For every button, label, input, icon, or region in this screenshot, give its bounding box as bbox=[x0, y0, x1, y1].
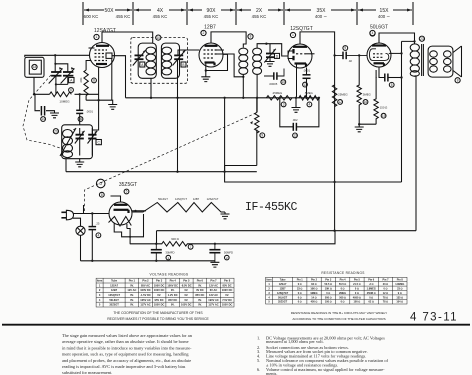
svg-text:105V AC: 105V AC bbox=[140, 298, 151, 302]
capacitor C9 .02 coupling bbox=[335, 52, 367, 60]
resistor R16 .5MEG grid bbox=[357, 55, 361, 124]
svg-text:Pin 5: Pin 5 bbox=[183, 279, 190, 283]
node caps bottom junction bbox=[55, 83, 57, 85]
output transformer T3 core bbox=[422, 44, 424, 76]
svg-text:ments.: ments. bbox=[266, 371, 277, 375]
node bus at 30MFD bbox=[155, 260, 157, 262]
resistor R7 900 ohm filter bbox=[130, 231, 335, 246]
volume control wiper arrow bbox=[250, 121, 253, 124]
svg-text:0 Ω: 0 Ω bbox=[298, 296, 302, 299]
node at grid line bbox=[79, 93, 81, 95]
circled ref 2 at V2 bbox=[201, 30, 206, 35]
boxed label C osc trimmer bbox=[96, 140, 101, 145]
wire trimmer to ground bbox=[269, 57, 271, 61]
svg-text:VOLTAGE READINGS: VOLTAGE READINGS bbox=[150, 273, 189, 277]
circled ref 1 at V1 bbox=[94, 34, 99, 39]
svg-text:6.: 6. bbox=[257, 367, 260, 372]
svg-text:455 KC: 455 KC bbox=[204, 14, 219, 19]
variable capacitor C osc trimmer bbox=[88, 128, 98, 156]
capacitor C5 cathode bypass bbox=[385, 74, 388, 82]
node tone left junction bbox=[279, 97, 281, 99]
svg-text:RESISTANCE READINGS IN THE B+: RESISTANCE READINGS IN THE B+ CIRCUITS M… bbox=[291, 311, 387, 315]
alignment scale frequency labels bbox=[84, 14, 390, 19]
wire V1 grid box to bus drop bbox=[112, 56, 126, 98]
svg-text:50X: 50X bbox=[105, 8, 115, 14]
svg-text:Volume control at maximum, no: Volume control at maximum, no signal app… bbox=[266, 367, 385, 373]
svg-text:100V DC: 100V DC bbox=[140, 288, 151, 292]
circled ref 6 bbox=[69, 88, 74, 93]
svg-text:in mind that it is possible to: in mind that it is possible to introduce… bbox=[62, 345, 192, 350]
svg-text:4 73-11: 4 73-11 bbox=[410, 312, 458, 324]
svg-text:0V.: 0V. bbox=[198, 303, 202, 307]
svg-text:The stage gain measured values: The stage gain measured values listed ab… bbox=[62, 333, 193, 338]
alignment scale arrowheads bbox=[84, 9, 412, 12]
svg-text:105V DC: 105V DC bbox=[181, 303, 192, 307]
circled ref 16b bbox=[363, 100, 368, 105]
stage gain paragraph bbox=[62, 333, 193, 375]
svg-text:ACCORDING TO THE CONDITION OF: ACCORDING TO THE CONDITION OF THE FILTER… bbox=[292, 317, 385, 321]
wire R8 bottom bbox=[86, 96, 99, 101]
svg-text:0 Ω: 0 Ω bbox=[383, 288, 387, 291]
ground at V2 cathode bbox=[201, 77, 210, 82]
circled ref 14 bbox=[41, 117, 46, 122]
filament labels bbox=[158, 197, 219, 201]
feedback vertical line bbox=[401, 41, 403, 182]
T1 secondary form bbox=[161, 43, 179, 78]
circled ref 10 on T1 box bbox=[156, 35, 161, 40]
svg-text:400 ∼: 400 ∼ bbox=[378, 14, 390, 19]
svg-text:0V.: 0V. bbox=[130, 298, 134, 302]
cooperation note bbox=[107, 311, 209, 321]
svg-text:Item: Item bbox=[97, 279, 103, 283]
svg-text:8: 8 bbox=[457, 79, 459, 83]
svg-text:12V AC: 12V AC bbox=[209, 283, 218, 287]
circled ref 13 bbox=[293, 133, 298, 138]
V1 grid pin box bbox=[106, 53, 112, 58]
svg-text:117V AC: 117V AC bbox=[208, 303, 218, 307]
svg-text:78 Ω: 78 Ω bbox=[383, 301, 388, 304]
capacitor C13 .002 bbox=[293, 123, 296, 131]
svg-text:85V DC: 85V DC bbox=[195, 293, 204, 297]
node V2 cathode bbox=[205, 69, 207, 71]
wire R8 top to V1 grid bbox=[86, 61, 91, 71]
svg-text:5: 5 bbox=[268, 301, 270, 304]
svg-text:12V AC: 12V AC bbox=[127, 288, 136, 292]
svg-text:190V AC: 190V AC bbox=[208, 298, 219, 302]
node R4 right junction bbox=[318, 97, 320, 99]
svg-text:12SA7: 12SA7 bbox=[279, 283, 287, 286]
svg-text:0 Ω: 0 Ω bbox=[369, 296, 373, 299]
boxed label B on T1 bbox=[181, 62, 186, 67]
svg-text:Tube: Tube bbox=[111, 279, 118, 283]
svg-text:250M Ω: 250M Ω bbox=[367, 292, 376, 295]
svg-text:RECEIVER MAKES IT POSSIBLE TO: RECEIVER MAKES IT POSSIBLE TO BRING YOU … bbox=[107, 317, 209, 321]
svg-text:Pin 3: Pin 3 bbox=[325, 279, 332, 282]
antenna loop L1 outer box bbox=[25, 57, 44, 77]
node heater pin bbox=[134, 210, 136, 212]
svg-text:50.5 Ω: 50.5 Ω bbox=[339, 283, 347, 286]
numbered notes list bbox=[257, 336, 389, 375]
svg-text:5: 5 bbox=[126, 190, 128, 194]
svg-text:4: 4 bbox=[372, 31, 374, 35]
circled ref 17 bbox=[303, 82, 308, 87]
wire T1 secondary bottom down to AVC line bbox=[177, 59, 179, 172]
T1 primary form bbox=[138, 43, 156, 78]
svg-text:23: 23 bbox=[420, 37, 424, 41]
node IF2 primary return bbox=[242, 76, 244, 78]
svg-text:400 ∼: 400 ∼ bbox=[315, 14, 327, 19]
svg-text:12B7: 12B7 bbox=[193, 197, 200, 201]
svg-text:8: 8 bbox=[101, 193, 103, 197]
circled ref 6 at V4 bbox=[370, 31, 375, 36]
svg-text:14 Ω: 14 Ω bbox=[311, 296, 316, 299]
circled ref 5b bbox=[389, 82, 394, 87]
svg-text:100V DC: 100V DC bbox=[222, 288, 233, 292]
separator rule bbox=[2, 324, 470, 326]
node T2 secondary at bus bbox=[256, 97, 258, 99]
circled ref 18 inside antenna bbox=[32, 64, 37, 69]
svg-text:50L6GT: 50L6GT bbox=[370, 25, 388, 31]
svg-text:5: 5 bbox=[99, 303, 101, 307]
wire V5 plate feed bbox=[111, 196, 121, 202]
svg-text:50L6GT: 50L6GT bbox=[158, 197, 168, 201]
svg-text:15: 15 bbox=[282, 80, 286, 84]
svg-text:0V.: 0V. bbox=[130, 293, 134, 297]
svg-text:100V DC: 100V DC bbox=[154, 288, 165, 292]
svg-text:Pin 5: Pin 5 bbox=[354, 279, 361, 282]
pilot lamp bbox=[76, 226, 85, 235]
wire V2 cathode loop bbox=[206, 54, 228, 70]
svg-text:100 Ω: 100 Ω bbox=[325, 301, 332, 304]
svg-text:.25MEG: .25MEG bbox=[272, 91, 282, 95]
svg-text:0V.: 0V. bbox=[198, 283, 202, 287]
node cathode ground junction bbox=[97, 99, 99, 101]
svg-text:10K Ω: 10K Ω bbox=[325, 288, 332, 291]
resistance readings table grid bbox=[266, 277, 407, 304]
wire link C-B top bbox=[55, 64, 67, 72]
svg-text:2: 2 bbox=[99, 288, 101, 292]
svg-text:.25MEG: .25MEG bbox=[337, 93, 347, 97]
wire cathode resistor join bbox=[359, 123, 376, 125]
capacitor C17 .0001 at V3 bbox=[303, 75, 311, 79]
node T1 primary bus bbox=[150, 97, 152, 99]
svg-text:12B7: 12B7 bbox=[111, 288, 118, 292]
speaker voice coil left bbox=[430, 51, 438, 72]
ground at T2 trimmer bbox=[266, 62, 275, 67]
svg-text:5: 5 bbox=[391, 83, 393, 87]
svg-text:0 Ω: 0 Ω bbox=[341, 301, 345, 304]
ground at V4 cathode bbox=[355, 124, 364, 132]
svg-text:-8.5V DC: -8.5V DC bbox=[181, 283, 192, 287]
svg-text:50MFD: 50MFD bbox=[224, 251, 233, 255]
svg-text:12SQ7GT: 12SQ7GT bbox=[277, 292, 289, 295]
ground at oscillator bbox=[75, 162, 84, 167]
main bus line bbox=[126, 97, 319, 99]
wire lamp to bottom bus bbox=[80, 235, 82, 260]
svg-text:6V AC: 6V AC bbox=[210, 288, 218, 292]
resistor R6 10MEG AVC bbox=[50, 92, 72, 97]
node 50MFD top bbox=[214, 243, 216, 245]
svg-text:0 Ω: 0 Ω bbox=[355, 288, 359, 291]
svg-text:9MEG: 9MEG bbox=[310, 292, 317, 295]
output transformer T3 primary winding bbox=[410, 44, 419, 76]
resistor R19 150 ohm cathode bbox=[374, 70, 378, 124]
wire volume bottom to AVC box bbox=[225, 130, 257, 172]
svg-text:.0001: .0001 bbox=[86, 110, 93, 114]
ground at filament end bbox=[221, 212, 230, 219]
svg-text:500 Ω: 500 Ω bbox=[339, 296, 346, 299]
wire osc box to ground bbox=[79, 159, 81, 162]
svg-text:0V.: 0V. bbox=[184, 293, 188, 297]
svg-text:average operative stage, rathe: average operative stage, rather than an … bbox=[62, 339, 189, 345]
voltage readings table text bbox=[97, 279, 233, 307]
T2 secondary trimmer cap bbox=[264, 44, 276, 63]
svg-text:84 Ω: 84 Ω bbox=[311, 283, 316, 286]
circled ref 4b on plate wire bbox=[370, 30, 375, 35]
svg-text:0V.: 0V. bbox=[130, 303, 134, 307]
svg-text:100V DC: 100V DC bbox=[167, 283, 178, 287]
svg-text:0 Ω: 0 Ω bbox=[341, 288, 345, 291]
svg-text:100 Ω: 100 Ω bbox=[354, 301, 361, 304]
wire V3 plate up and over bbox=[127, 32, 335, 244]
variable capacitor C osc padder bbox=[75, 128, 85, 156]
svg-text:0 Ω: 0 Ω bbox=[298, 301, 302, 304]
wire V1 plate to T1 primary bbox=[102, 32, 153, 43]
svg-text:13: 13 bbox=[293, 134, 297, 138]
svg-text:2: 2 bbox=[203, 31, 205, 35]
AVC return line bbox=[66, 159, 257, 172]
wire T2 primary bottom to bus bbox=[242, 74, 244, 97]
svg-text:35Z5GT: 35Z5GT bbox=[119, 182, 137, 188]
circled ref 19 bbox=[381, 113, 386, 118]
voltage readings table grid bbox=[96, 278, 234, 307]
oscillator coil arrow bbox=[60, 128, 76, 156]
svg-text:900 Ω: 900 Ω bbox=[171, 237, 179, 241]
svg-text:20K: 20K bbox=[79, 77, 83, 82]
bottom negative bus bbox=[81, 260, 215, 262]
svg-text:THE COOPERATION OF THE MANUFAC: THE COOPERATION OF THE MANUFACTURER OF T… bbox=[113, 311, 203, 315]
capacitor C2 50MFD bbox=[209, 244, 220, 262]
svg-text:12B7: 12B7 bbox=[280, 288, 287, 291]
dashed gang tuning link bbox=[23, 75, 63, 149]
ground at detector bbox=[292, 108, 301, 113]
wire T2 secondary top rail bbox=[257, 44, 288, 56]
wire caps bottoms to grid line bbox=[56, 76, 68, 95]
svg-text:Pin 7: Pin 7 bbox=[383, 279, 390, 282]
svg-text:10MEG: 10MEG bbox=[59, 99, 70, 103]
circled ref 4 bbox=[307, 102, 312, 107]
svg-text:0V.: 0V. bbox=[171, 303, 175, 307]
wire bus down to tuning cap C-A bbox=[54, 55, 56, 72]
resistor R18 .25MEG bbox=[266, 96, 292, 100]
svg-text:455 KC: 455 KC bbox=[252, 14, 267, 19]
svg-text:85V DC: 85V DC bbox=[223, 283, 232, 287]
svg-text:104 Ω: 104 Ω bbox=[396, 301, 403, 304]
svg-text:Item: Item bbox=[267, 279, 273, 282]
node V5 cathode at B line bbox=[129, 243, 131, 245]
svg-text:0V.: 0V. bbox=[184, 288, 188, 292]
volume control R10 bbox=[255, 112, 259, 133]
circled ref 3 bbox=[281, 102, 286, 107]
node antenna bus junction bbox=[54, 54, 56, 56]
svg-text:4: 4 bbox=[268, 296, 270, 299]
svg-text:12: 12 bbox=[338, 100, 342, 104]
svg-text:1: 1 bbox=[292, 33, 294, 37]
svg-text:0 Ω: 0 Ω bbox=[326, 292, 330, 295]
wire V2 plate to T2 primary bbox=[211, 32, 246, 48]
wire grid line to C16 to osc box bbox=[79, 94, 81, 125]
svg-text:Pin 6: Pin 6 bbox=[368, 279, 375, 282]
svg-text:16: 16 bbox=[364, 100, 368, 104]
svg-text:IF-455KC: IF-455KC bbox=[245, 201, 298, 214]
svg-text:4: 4 bbox=[309, 103, 311, 107]
boxed label A trimmer bbox=[69, 78, 74, 83]
node return at feed bbox=[333, 230, 335, 232]
capacitor C .00005 diode coupling bbox=[264, 69, 284, 80]
oscillator coil L2 windings bbox=[63, 130, 73, 158]
IF transformer T2 primary winding bbox=[239, 48, 248, 74]
wire AVC grid line bbox=[34, 93, 99, 95]
svg-text:Pin 8: Pin 8 bbox=[224, 279, 231, 283]
node C17 bus bbox=[305, 97, 307, 99]
resistor R8 20K oscillator grid bbox=[84, 70, 88, 95]
oscillator coil L2 box bbox=[62, 125, 93, 159]
circled ref 8b at speaker bbox=[455, 78, 460, 83]
svg-text:3: 3 bbox=[283, 103, 285, 107]
wire V4 plate to output transformer bbox=[379, 33, 415, 44]
svg-text:12SQ7CT: 12SQ7CT bbox=[175, 197, 187, 201]
AC plug prongs bbox=[61, 212, 66, 218]
wire T3 primary bottom down bbox=[415, 76, 417, 231]
svg-text:Tube: Tube bbox=[280, 279, 286, 282]
wire C14 to ground bbox=[46, 111, 55, 113]
svg-text:4: 4 bbox=[98, 234, 100, 238]
circled ref 8 bbox=[92, 78, 97, 83]
node feedback at screen bbox=[400, 52, 402, 54]
T1 primary winding bbox=[146, 47, 156, 75]
svg-text:0V.: 0V. bbox=[225, 293, 229, 297]
svg-text:35Z5GT: 35Z5GT bbox=[278, 301, 288, 304]
svg-text:1.2V DC: 1.2V DC bbox=[168, 293, 178, 297]
circled ref 8 below V5 label bbox=[99, 192, 104, 197]
capacitor C1 30MFD bbox=[151, 244, 162, 261]
wire antenna top bus to V1 bbox=[25, 55, 90, 57]
variable capacitor C-A antenna tuning bbox=[49, 67, 63, 83]
svg-text:0 Ω: 0 Ω bbox=[355, 292, 359, 295]
output return line bbox=[157, 230, 417, 232]
svg-text:12SQ7GT: 12SQ7GT bbox=[108, 293, 120, 297]
svg-text:7: 7 bbox=[190, 245, 192, 249]
svg-text:B: B bbox=[182, 63, 184, 67]
T1 secondary winding bbox=[162, 47, 172, 75]
circled ref 20 bbox=[53, 129, 58, 134]
node bus at C4 bbox=[91, 260, 93, 262]
resistor R12 .25MEG plate load bbox=[332, 85, 336, 106]
svg-text:Pin 4: Pin 4 bbox=[170, 279, 177, 283]
T1 primary trimmer cap bbox=[133, 50, 146, 66]
svg-text:2MEG: 2MEG bbox=[339, 292, 346, 295]
svg-text:4950 Ω: 4950 Ω bbox=[353, 296, 361, 299]
svg-text:9: 9 bbox=[261, 134, 263, 138]
node B plus at feed line bbox=[333, 181, 335, 183]
circled ref 2b bbox=[225, 255, 230, 260]
svg-text:9: 9 bbox=[344, 46, 346, 50]
svg-text:500 Ω: 500 Ω bbox=[325, 296, 332, 299]
svg-text:reading is impractical. AVC is: reading is impractical. AVC is made inop… bbox=[62, 364, 186, 369]
tube V4 50L6GT output bbox=[367, 43, 402, 67]
circled ref 1b bbox=[166, 255, 171, 260]
node V4 cathode junction bbox=[375, 76, 377, 78]
tube V2 12B7 IF amplifier bbox=[199, 43, 223, 67]
svg-text:50L6GT: 50L6GT bbox=[278, 296, 288, 299]
B plus distribution verticals bbox=[225, 98, 402, 182]
circled ref 9 volume bbox=[260, 133, 265, 138]
svg-text:.5MEG: .5MEG bbox=[304, 91, 313, 95]
svg-text:0V.: 0V. bbox=[198, 298, 202, 302]
node antenna AVC junction bbox=[33, 93, 35, 95]
svg-text:.5MEG: .5MEG bbox=[362, 93, 371, 97]
circled ref 1 at V3 bbox=[290, 32, 295, 37]
wire antenna bottom to AVC line bbox=[33, 77, 35, 94]
svg-text:50L6GT: 50L6GT bbox=[109, 298, 119, 302]
svg-text:2: 2 bbox=[268, 288, 270, 291]
svg-text:450 Ω: 450 Ω bbox=[311, 301, 318, 304]
svg-text:12SQ7GT: 12SQ7GT bbox=[290, 26, 313, 32]
svg-text:3: 3 bbox=[268, 292, 270, 295]
svg-text:substituted for measurement.: substituted for measurement. bbox=[62, 370, 112, 375]
svg-text:100V DC: 100V DC bbox=[154, 283, 165, 287]
wire bypass cap to feedback line bbox=[388, 77, 402, 79]
svg-text:1.8MEG: 1.8MEG bbox=[367, 288, 376, 291]
AC plug body bbox=[66, 210, 73, 220]
capacitor C16 .0001 osc grid bbox=[76, 110, 83, 113]
circled ref 4c bbox=[96, 233, 101, 238]
svg-text:RESISTANCE READINGS: RESISTANCE READINGS bbox=[321, 271, 364, 275]
node primary top bbox=[413, 40, 415, 42]
svg-text:Pin 6: Pin 6 bbox=[197, 279, 204, 283]
svg-text:150 Ω: 150 Ω bbox=[380, 106, 388, 110]
svg-text:-1.5V DC: -1.5V DC bbox=[140, 293, 151, 297]
svg-text:Pin 1: Pin 1 bbox=[297, 279, 304, 282]
tube V3 12SQ7GT detector AVC first audio bbox=[288, 44, 315, 98]
circled ref 5 at V5 bbox=[124, 189, 129, 194]
speaker SP frame bbox=[428, 46, 453, 77]
wire C4 to line and bus bbox=[91, 214, 93, 261]
node AVC crossing bbox=[223, 171, 225, 173]
svg-text:3V DC: 3V DC bbox=[196, 288, 204, 292]
svg-text:135 Ω: 135 Ω bbox=[396, 296, 403, 299]
svg-text:600 KC: 600 KC bbox=[84, 14, 99, 19]
svg-text:78 Ω: 78 Ω bbox=[383, 296, 388, 299]
circled ref 16 bbox=[78, 117, 83, 122]
svg-text:23 Ω: 23 Ω bbox=[383, 283, 388, 286]
boxed label A on T1 bbox=[140, 62, 145, 67]
ground at 50MFD bbox=[210, 262, 219, 267]
node V4 grid junction bbox=[358, 54, 360, 56]
svg-text:4: 4 bbox=[99, 298, 101, 302]
svg-text:12SA7GT: 12SA7GT bbox=[207, 197, 219, 201]
node detector junction bbox=[295, 97, 297, 99]
wire tone loop bbox=[280, 98, 319, 127]
svg-text:9 Ω: 9 Ω bbox=[398, 292, 402, 295]
resistor R4 .5MEG bbox=[299, 96, 319, 100]
svg-text:12 Ω: 12 Ω bbox=[383, 292, 388, 295]
circled ref 10 at V5 label bbox=[96, 179, 105, 188]
node cap link junction bbox=[54, 63, 56, 65]
wire plug line bottom to lamp bbox=[73, 218, 81, 226]
svg-text:50.5 Ω: 50.5 Ω bbox=[325, 283, 333, 286]
ground at V1 cathode bbox=[108, 105, 117, 110]
